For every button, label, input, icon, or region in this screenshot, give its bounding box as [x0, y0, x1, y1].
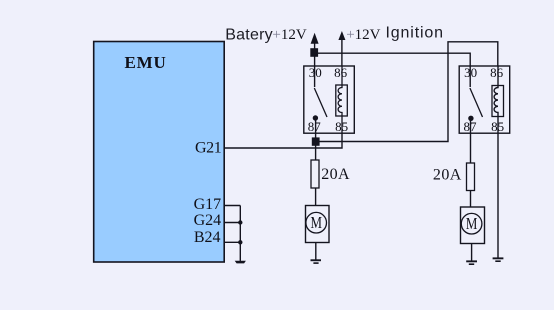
- svg-text:87: 87: [308, 119, 322, 134]
- K2 coil winding / pin 85 wire to ground: [494, 66, 498, 258]
- wire B24 pin: [224, 241, 240, 243]
- ground GND3 for K2 pin 85: [493, 257, 504, 262]
- wire K1 pin 87 down to fuse F1: [315, 118, 317, 160]
- K2 pin30 internal stub: [469, 66, 471, 87]
- junction dot G24: [238, 220, 242, 224]
- motor M1 box: [306, 206, 330, 243]
- ground GND1: [311, 259, 322, 264]
- wire K2 pin 87 down to fuse F2: [470, 118, 472, 163]
- relay K2 box: [459, 66, 510, 133]
- motor M2 box: [461, 207, 485, 244]
- wire F1 to motor M1: [315, 188, 317, 206]
- wire F2 to motor M2: [470, 191, 472, 208]
- svg-text:20A: 20A: [433, 167, 462, 184]
- junction J1 battery node: [310, 48, 318, 57]
- relay K1 box: [304, 66, 355, 133]
- svg-text:B24: B24: [194, 229, 221, 246]
- svg-text:G17: G17: [194, 196, 222, 213]
- wire G24 pin: [224, 222, 240, 224]
- svg-text:86: 86: [334, 65, 348, 80]
- svg-text:20A: 20A: [321, 166, 350, 183]
- svg-text:G24: G24: [194, 212, 222, 229]
- wire 87 node to K2 pin 86: [316, 42, 498, 142]
- K2 coil rect: [492, 86, 504, 117]
- junction J2 on 87 line: [312, 137, 320, 145]
- K1 coil winding: [338, 66, 342, 133]
- fuse F1: [311, 160, 319, 188]
- K1 pin30 internal stub: [314, 66, 316, 87]
- svg-text:EMU: EMU: [125, 53, 167, 72]
- wire M2 to ground: [471, 244, 473, 262]
- svg-text:+12V: +12V: [272, 27, 306, 43]
- K1 switch arm: [314, 88, 327, 117]
- junction dot B24: [238, 240, 242, 244]
- K1 contact dot 87: [313, 115, 318, 120]
- EMU U1 box: [94, 42, 225, 263]
- ignition +12V arrow / wire to K1 pin 86: [341, 36, 343, 66]
- wire G21 to K1 pin 85: [224, 133, 342, 148]
- ground GND4 EMU: [235, 261, 246, 264]
- wire EMU ground rail: [239, 206, 241, 261]
- wire M1 to ground: [315, 243, 317, 261]
- ground GND2: [466, 260, 477, 265]
- svg-text:M: M: [466, 214, 478, 233]
- svg-text:Ignition: Ignition: [386, 25, 444, 42]
- svg-text:Batery: Batery: [225, 27, 273, 44]
- K1 coil rect: [336, 85, 348, 116]
- K2 switch arm: [470, 88, 483, 117]
- wire battery bus to K2 pin 30: [315, 53, 471, 66]
- svg-text:G21: G21: [195, 140, 222, 157]
- K2 contact dot 87: [468, 116, 473, 121]
- battery +12V arrow: [314, 38, 316, 66]
- svg-text:86: 86: [490, 65, 504, 80]
- svg-text:M: M: [310, 213, 322, 232]
- svg-text:+12V: +12V: [346, 27, 380, 43]
- M2 circle: [461, 213, 482, 234]
- fuse F2: [467, 163, 475, 191]
- M1 circle: [306, 212, 327, 233]
- wire G17 pin: [224, 205, 240, 207]
